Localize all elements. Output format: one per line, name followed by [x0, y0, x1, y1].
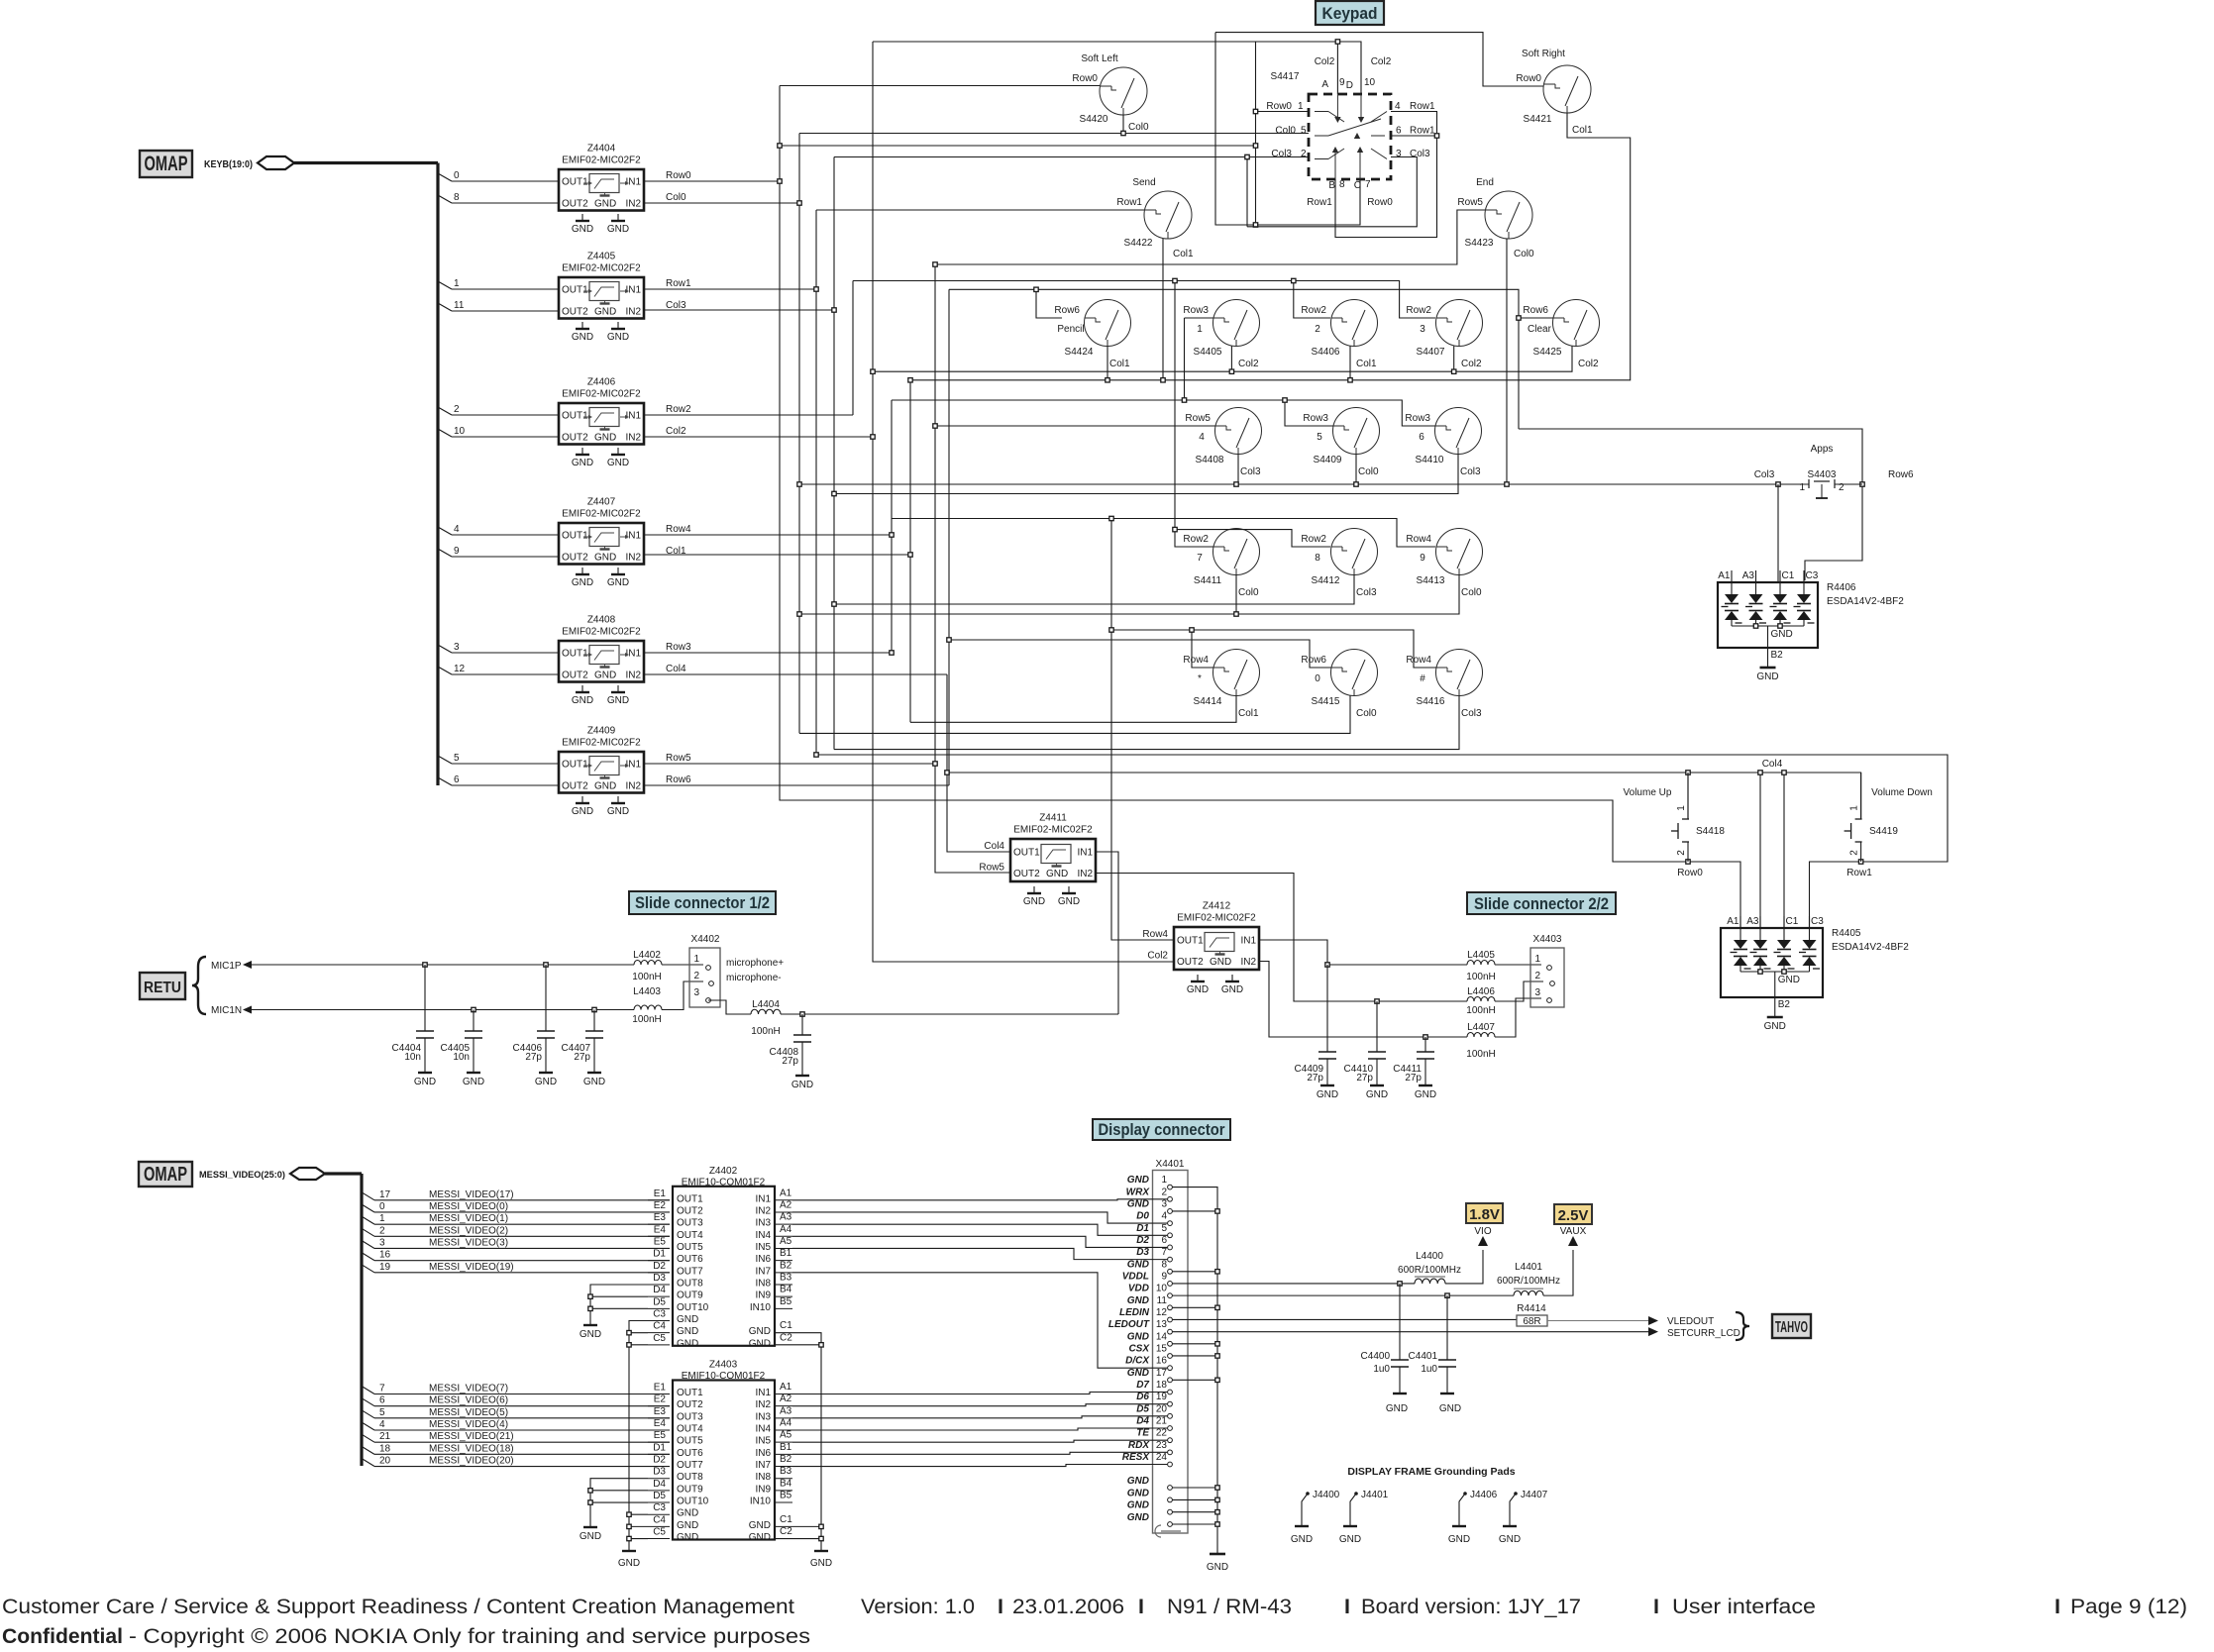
wire Z4402 D3-D5 to GND	[590, 1285, 648, 1325]
svg-text:Z4407: Z4407	[587, 497, 616, 508]
svg-text:1u0: 1u0	[1421, 1364, 1437, 1375]
switch S4413 key 9	[1406, 529, 1482, 599]
switch S4418	[1671, 773, 1725, 862]
grounding pad J4406	[1448, 1490, 1498, 1545]
svg-text:EMIF02-MIC02F2: EMIF02-MIC02F2	[562, 509, 641, 520]
junctions Row5	[933, 262, 937, 266]
svg-text:IN8: IN8	[755, 1472, 771, 1483]
svg-text:IN5: IN5	[755, 1436, 771, 1447]
svg-text:2: 2	[693, 971, 699, 981]
svg-text:Z4405: Z4405	[587, 252, 616, 262]
svg-text:Z4412: Z4412	[1203, 901, 1231, 912]
svg-text:GND: GND	[1756, 671, 1778, 682]
svg-text:J4407: J4407	[1521, 1490, 1548, 1500]
svg-text:C5: C5	[653, 1527, 666, 1538]
svg-text:Display connector: Display connector	[1099, 1120, 1225, 1139]
svg-text:GND: GND	[749, 1532, 771, 1543]
svg-text:2: 2	[1849, 850, 1860, 856]
connector X4403 slide 2	[1530, 934, 1564, 1007]
svg-text:Col0: Col0	[666, 192, 686, 203]
wire KEYB bit 0 to Z4404 OUT1	[438, 170, 559, 181]
svg-text:A1: A1	[780, 1187, 792, 1198]
svg-text:MESSI_VIDEO(2): MESSI_VIDEO(2)	[429, 1225, 508, 1236]
svg-text:Apps: Apps	[1811, 444, 1834, 455]
svg-text:100nH: 100nH	[1466, 1005, 1495, 1016]
svg-text:EMIF02-MIC02F2: EMIF02-MIC02F2	[562, 155, 641, 166]
svg-text:L4401: L4401	[1515, 1262, 1542, 1273]
svg-text:A3: A3	[780, 1212, 792, 1223]
svg-text:27p: 27p	[525, 1052, 542, 1063]
wire D3	[792, 1248, 1167, 1259]
svg-text:18: 18	[1156, 1380, 1168, 1391]
svg-text:I: I	[1138, 1595, 1144, 1618]
svg-text:OUT2: OUT2	[562, 781, 588, 792]
junction Col3 at S4403	[1776, 482, 1780, 486]
svg-text:21: 21	[1156, 1416, 1168, 1427]
svg-text:6: 6	[454, 774, 460, 785]
svg-text:Col1: Col1	[1238, 708, 1259, 719]
svg-text:OUT2: OUT2	[562, 553, 588, 564]
svg-text:S4419: S4419	[1869, 826, 1898, 837]
svg-text:OMAP: OMAP	[145, 153, 188, 175]
svg-text:8: 8	[1315, 553, 1320, 564]
svg-text:Row2: Row2	[1301, 534, 1326, 545]
svg-text:5: 5	[454, 753, 460, 764]
wire D6	[792, 1404, 1167, 1406]
svg-text:D3: D3	[653, 1273, 666, 1284]
bus KEYB trunk	[294, 161, 438, 164]
switch S4403 Apps	[1754, 444, 1914, 498]
svg-text:GND: GND	[607, 224, 629, 235]
svg-text:OUT3: OUT3	[677, 1218, 703, 1229]
wire RDX	[792, 1452, 1167, 1454]
svg-text:IN7: IN7	[755, 1266, 771, 1277]
svg-text:GND: GND	[594, 781, 616, 792]
svg-text:GND: GND	[1210, 957, 1231, 968]
svg-text:Col3: Col3	[1271, 149, 1292, 159]
bus arrow MESSI_VIDEO	[290, 1168, 325, 1180]
switch S4411 key 7	[1183, 529, 1259, 599]
svg-text:GND: GND	[572, 458, 593, 468]
svg-text:C4: C4	[653, 1514, 666, 1525]
svg-text:E5: E5	[654, 1236, 667, 1247]
wire L4400 to VIO	[1445, 1250, 1483, 1284]
svg-text:L4405: L4405	[1467, 950, 1495, 961]
svg-text:B3: B3	[780, 1466, 792, 1477]
svg-text:GND: GND	[594, 671, 616, 681]
svg-text:17: 17	[379, 1189, 391, 1200]
svg-text:OUT2: OUT2	[562, 199, 588, 210]
wire net Col3	[644, 309, 834, 311]
svg-text:C3: C3	[653, 1502, 666, 1513]
svg-text:D: D	[1346, 80, 1353, 91]
svg-text:B2: B2	[1778, 999, 1791, 1010]
EMI filter Z4409 EMIF02-MIC02F2	[559, 726, 644, 793]
supply arrow VAUX	[1560, 1226, 1587, 1246]
svg-text:Z4408: Z4408	[587, 615, 616, 626]
svg-text:Row3: Row3	[1303, 413, 1328, 424]
svg-text:6: 6	[1161, 1235, 1167, 1246]
svg-text:MESSI_VIDEO(20): MESSI_VIDEO(20)	[429, 1456, 514, 1467]
svg-text:7: 7	[379, 1384, 385, 1394]
svg-text:1: 1	[1676, 805, 1687, 811]
svg-text:GND: GND	[1221, 984, 1243, 995]
svg-text:S4421: S4421	[1524, 114, 1552, 125]
svg-text:microphone+: microphone+	[726, 958, 784, 969]
svg-text:D3: D3	[1136, 1247, 1149, 1258]
svg-text:A: A	[1321, 79, 1328, 90]
svg-text:GND: GND	[1778, 975, 1800, 985]
wire Z4412 IN2 to L4407	[1259, 962, 1467, 1038]
svg-text:D/CX: D/CX	[1125, 1356, 1150, 1367]
ground Z4402 D-pins	[580, 1325, 601, 1340]
svg-text:I: I	[1653, 1595, 1659, 1618]
svg-text:IN1: IN1	[625, 649, 641, 660]
svg-text:GND: GND	[1207, 1562, 1228, 1573]
svg-text:IN6: IN6	[755, 1254, 771, 1265]
grounding pad J4401	[1339, 1490, 1389, 1545]
svg-text:GND: GND	[607, 695, 629, 706]
svg-text:D3: D3	[653, 1467, 666, 1478]
Z4411 GND pins	[1023, 886, 1080, 907]
brace RETU	[192, 957, 206, 1014]
svg-text:GND: GND	[1187, 984, 1209, 995]
wire MESSI_VIDEO bit 0	[362, 1201, 670, 1212]
switch S4421 Soft Right	[1516, 49, 1593, 136]
svg-text:OUT7: OUT7	[677, 1266, 703, 1277]
svg-text:C4401: C4401	[1409, 1351, 1438, 1362]
switch S4422 Send	[1116, 177, 1194, 259]
wire X4401 GND rail	[1173, 1187, 1220, 1554]
svg-text:Col3: Col3	[666, 300, 686, 311]
svg-text:1u0: 1u0	[1373, 1364, 1390, 1375]
svg-text:16: 16	[379, 1250, 391, 1261]
svg-text:Row1: Row1	[1846, 868, 1872, 878]
svg-text:Row3: Row3	[1405, 413, 1430, 424]
svg-text:IN3: IN3	[755, 1218, 771, 1229]
svg-text:Z4404: Z4404	[587, 144, 616, 155]
wire KEYB bit 6 to Z4409 OUT2	[438, 774, 559, 785]
svg-text:S4408: S4408	[1196, 455, 1224, 465]
svg-text:OUT1: OUT1	[1013, 848, 1040, 859]
capacitor C4406 27p	[513, 965, 558, 1087]
svg-text:IN1: IN1	[625, 531, 641, 542]
grounding pad J4407	[1499, 1490, 1548, 1545]
svg-text:OUT9: OUT9	[677, 1484, 703, 1495]
inductor L4406 100nH	[1466, 986, 1495, 1016]
svg-text:1: 1	[1298, 101, 1304, 112]
svg-text:OUT1: OUT1	[677, 1388, 703, 1398]
wire KEYB bit 4 to Z4407 OUT1	[438, 524, 559, 535]
svg-text:Row6: Row6	[1523, 305, 1548, 316]
svg-text:MESSI_VIDEO(7): MESSI_VIDEO(7)	[429, 1384, 508, 1394]
svg-text:IN2: IN2	[755, 1205, 771, 1216]
svg-text:GND: GND	[1127, 1512, 1149, 1523]
junction C4400 tap	[1398, 1282, 1402, 1286]
svg-text:EMIF02-MIC02F2: EMIF02-MIC02F2	[562, 389, 641, 400]
svg-text:OUT10: OUT10	[677, 1302, 709, 1313]
svg-text:19: 19	[379, 1262, 391, 1273]
svg-text:19: 19	[1156, 1392, 1168, 1402]
svg-text:MIC1N: MIC1N	[211, 1005, 242, 1016]
svg-text:IN9: IN9	[755, 1484, 771, 1495]
svg-text:GND: GND	[580, 1531, 601, 1542]
svg-text:6: 6	[1396, 126, 1402, 137]
svg-text:E1: E1	[654, 1188, 667, 1199]
svg-text:GND: GND	[677, 1520, 698, 1531]
Z4408 GND pins	[572, 685, 629, 706]
svg-text:15: 15	[1156, 1343, 1168, 1354]
svg-text:GND: GND	[1499, 1534, 1521, 1545]
svg-text:OUT6: OUT6	[677, 1254, 703, 1265]
wire Z4411 IN1 to microphone line	[1096, 852, 1118, 1014]
svg-text:3: 3	[1396, 149, 1402, 159]
wire WRX	[792, 1199, 1167, 1200]
svg-text:A1: A1	[780, 1382, 792, 1393]
switch S4420 Soft Left	[1072, 53, 1149, 133]
wire Z4411 IN2 to L4406	[1096, 874, 1467, 1002]
junctions Col2	[871, 369, 875, 373]
wire MESSI_VIDEO bit 19	[362, 1262, 670, 1273]
svg-text:20: 20	[1156, 1403, 1168, 1414]
junctions Row6	[947, 638, 951, 642]
svg-text:R4405: R4405	[1832, 928, 1861, 939]
wire net Col1	[644, 554, 910, 556]
svg-text:11: 11	[1157, 1295, 1168, 1306]
svg-text:A5: A5	[780, 1430, 792, 1441]
svg-text:Col1: Col1	[1173, 249, 1194, 259]
svg-text:1: 1	[1534, 954, 1540, 965]
svg-text:*: *	[1198, 673, 1202, 684]
svg-text:IN1: IN1	[625, 760, 641, 771]
svg-text:IN1: IN1	[755, 1388, 771, 1398]
svg-text:3: 3	[693, 987, 699, 998]
svg-text:S4420: S4420	[1080, 114, 1108, 125]
svg-text:DISPLAY FRAME Grounding Pads: DISPLAY FRAME Grounding Pads	[1347, 1466, 1515, 1478]
svg-text:Row5: Row5	[979, 863, 1004, 874]
svg-text:C3: C3	[653, 1309, 666, 1320]
wire KEYB bit 3 to Z4408 OUT1	[438, 642, 559, 653]
svg-text:C2: C2	[780, 1332, 792, 1343]
svg-text:IN2: IN2	[625, 671, 641, 681]
svg-text:Volume Down: Volume Down	[1871, 787, 1933, 798]
svg-text:Row1: Row1	[1116, 197, 1142, 208]
svg-text:GND: GND	[677, 1532, 698, 1543]
switch S4415 key 0	[1301, 650, 1377, 720]
svg-text:A2: A2	[780, 1394, 792, 1404]
capacitor C4405 10n	[441, 1010, 485, 1088]
svg-text:IN3: IN3	[755, 1411, 771, 1422]
svg-text:S4416: S4416	[1417, 696, 1445, 707]
svg-text:Z4409: Z4409	[587, 726, 616, 737]
svg-text:D4: D4	[653, 1479, 666, 1490]
svg-text:1: 1	[379, 1213, 385, 1224]
svg-text:IN2: IN2	[625, 553, 641, 564]
svg-text:GND: GND	[463, 1077, 484, 1087]
svg-text:Row3: Row3	[1183, 305, 1209, 316]
svg-text:GND: GND	[607, 806, 629, 817]
svg-text:Row4: Row4	[666, 524, 691, 535]
svg-text:IN2: IN2	[1077, 869, 1093, 879]
capacitor C4401 1u0	[1409, 1295, 1462, 1414]
wire VLEDOUT	[1547, 1316, 1714, 1327]
svg-text:MESSI_VIDEO(18): MESSI_VIDEO(18)	[429, 1443, 514, 1454]
svg-text:GND: GND	[607, 332, 629, 343]
wire KEYB bit 5 to Z4409 OUT1	[438, 753, 559, 764]
svg-text:S4415: S4415	[1312, 696, 1340, 707]
svg-text:Col3: Col3	[1461, 708, 1482, 719]
svg-text:5: 5	[379, 1407, 385, 1418]
svg-text:B5: B5	[780, 1491, 792, 1501]
wire MESSI_VIDEO bit 16	[362, 1250, 670, 1261]
svg-text:7: 7	[1365, 179, 1371, 190]
svg-text:Col1: Col1	[1356, 359, 1377, 369]
svg-text:L4400: L4400	[1416, 1251, 1443, 1262]
svg-text:S4412: S4412	[1312, 575, 1340, 586]
wire net Row0	[644, 180, 780, 182]
svg-text:GND: GND	[677, 1338, 698, 1349]
svg-text:3: 3	[1161, 1198, 1167, 1209]
wire net Row5	[644, 763, 935, 765]
svg-text:S4424: S4424	[1065, 347, 1094, 358]
svg-text:B2: B2	[780, 1260, 792, 1271]
svg-text:9: 9	[1339, 77, 1345, 88]
svg-text:OUT2: OUT2	[677, 1205, 703, 1216]
wire MESSI_VIDEO bit 17	[362, 1189, 670, 1200]
svg-text:GND: GND	[607, 458, 629, 468]
svg-text:GND: GND	[1291, 1534, 1313, 1545]
svg-text:100nH: 100nH	[632, 1014, 661, 1025]
svg-text:Col0: Col0	[1461, 587, 1482, 598]
svg-text:OUT1: OUT1	[562, 411, 588, 422]
inductor L4400 600R/100MHz	[1398, 1251, 1461, 1284]
svg-text:OUT1: OUT1	[562, 531, 588, 542]
ground C-rail right	[810, 1551, 832, 1569]
EMI filter Z4412 EMIF02-MIC02F2	[1142, 901, 1259, 971]
wire MESSI_VIDEO bit 21	[362, 1431, 670, 1442]
svg-text:Row4: Row4	[1406, 534, 1431, 545]
junction C4401 tap	[1445, 1293, 1449, 1297]
svg-text:A3: A3	[1742, 570, 1755, 581]
wire D4	[792, 1428, 1167, 1430]
wire MIC1N line	[250, 1009, 634, 1011]
svg-text:Col3: Col3	[1240, 466, 1261, 477]
EMI filter Z4404 EMIF02-MIC02F2	[559, 144, 644, 211]
svg-text:IN7: IN7	[755, 1460, 771, 1471]
svg-text:GND: GND	[1127, 1295, 1149, 1306]
svg-text:OUT5: OUT5	[677, 1242, 703, 1253]
svg-text:E2: E2	[654, 1200, 667, 1211]
svg-text:9: 9	[454, 546, 460, 557]
svg-text:C3: C3	[1806, 570, 1819, 581]
svg-text:2: 2	[454, 404, 460, 415]
svg-text:- Copyright © 2006 NOKIA Onl: - Copyright © 2006 NOKIA Only for traini…	[129, 1624, 810, 1648]
svg-text:GND: GND	[1764, 1021, 1786, 1032]
wire MESSI_VIDEO bit 20	[362, 1456, 670, 1467]
svg-text:OUT2: OUT2	[562, 307, 588, 318]
svg-text:7: 7	[1197, 553, 1203, 564]
svg-text:OUT1: OUT1	[677, 1193, 703, 1204]
svg-text:Clear: Clear	[1528, 324, 1552, 335]
svg-text:E5: E5	[654, 1430, 667, 1441]
svg-text:A5: A5	[780, 1236, 792, 1247]
svg-text:Col4: Col4	[666, 664, 686, 674]
junctions Col3	[832, 308, 836, 312]
svg-text:S4410: S4410	[1416, 455, 1444, 465]
brace TAHVO	[1736, 1312, 1749, 1340]
inductor L4402 100nH	[632, 950, 662, 982]
svg-text:S4406: S4406	[1312, 347, 1340, 358]
resistor R4414 68R	[1173, 1303, 1548, 1327]
svg-text:Col2: Col2	[1147, 951, 1168, 962]
capacitor C4411 27p	[1393, 1037, 1436, 1100]
wire net Row2	[644, 414, 853, 416]
svg-text:10: 10	[454, 426, 466, 437]
svg-text:OUT9: OUT9	[677, 1291, 703, 1301]
svg-text:GND: GND	[1771, 629, 1793, 640]
connector X4401 display	[1108, 1159, 1188, 1537]
wire net Col4	[644, 673, 947, 675]
switch S4416 key #	[1406, 650, 1482, 720]
svg-text:GND: GND	[1058, 896, 1080, 907]
svg-text:C1: C1	[780, 1320, 792, 1331]
junctions Row2	[1173, 278, 1177, 282]
svg-text:Row0: Row0	[1072, 73, 1098, 84]
svg-text:IN2: IN2	[625, 199, 641, 210]
wire C1-C2 ground rail right	[775, 1333, 821, 1551]
svg-text:Send: Send	[1132, 177, 1155, 188]
svg-text:D2: D2	[1136, 1235, 1149, 1246]
svg-text:IN10: IN10	[750, 1302, 772, 1313]
svg-text:IN2: IN2	[625, 307, 641, 318]
svg-text:GND: GND	[1317, 1089, 1338, 1100]
wire L4405 to X4403 pin1	[1495, 964, 1541, 966]
svg-text:E1: E1	[654, 1383, 667, 1394]
svg-text:A4: A4	[780, 1418, 792, 1429]
svg-text:Row4: Row4	[1406, 655, 1431, 666]
svg-text:Page 9 (12): Page 9 (12)	[2070, 1595, 2187, 1618]
switch S4417 5-way navigator	[1266, 56, 1435, 208]
switch S4410 key 6	[1405, 408, 1481, 478]
supply arrow VIO	[1474, 1226, 1491, 1246]
EMI filter Z4407 EMIF02-MIC02F2	[559, 497, 644, 565]
svg-text:IN4: IN4	[755, 1230, 771, 1241]
svg-text:B4: B4	[780, 1285, 792, 1295]
svg-text:2: 2	[379, 1225, 385, 1236]
junctions Row1	[814, 287, 818, 291]
svg-text:S4411: S4411	[1194, 575, 1222, 586]
svg-text:B2: B2	[1771, 650, 1784, 661]
bus arrow KEYB	[258, 156, 294, 169]
wire mic+ line slide2	[1327, 964, 1467, 966]
svg-text:GND: GND	[1127, 1500, 1149, 1511]
svg-text:VAUX: VAUX	[1560, 1226, 1587, 1237]
svg-text:3: 3	[1534, 987, 1540, 998]
svg-text:MESSI_VIDEO(0): MESSI_VIDEO(0)	[429, 1201, 508, 1212]
svg-text:EMIF02-MIC02F2: EMIF02-MIC02F2	[562, 738, 641, 749]
svg-text:RETU: RETU	[144, 980, 181, 996]
svg-text:Version: 1.0: Version: 1.0	[861, 1595, 975, 1618]
svg-text:Slide connector 1/2: Slide connector 1/2	[635, 893, 770, 912]
block OMAP (KEYB)	[140, 151, 192, 177]
capacitor C4408 27p	[770, 1014, 814, 1090]
svg-text:27p: 27p	[1405, 1073, 1422, 1084]
svg-text:Z4403: Z4403	[709, 1360, 738, 1371]
capacitor C4407 27p	[562, 1010, 606, 1088]
svg-text:D5: D5	[1136, 1403, 1149, 1414]
section label Slide connector 2/2	[1467, 892, 1616, 914]
svg-text:1: 1	[1197, 324, 1203, 335]
